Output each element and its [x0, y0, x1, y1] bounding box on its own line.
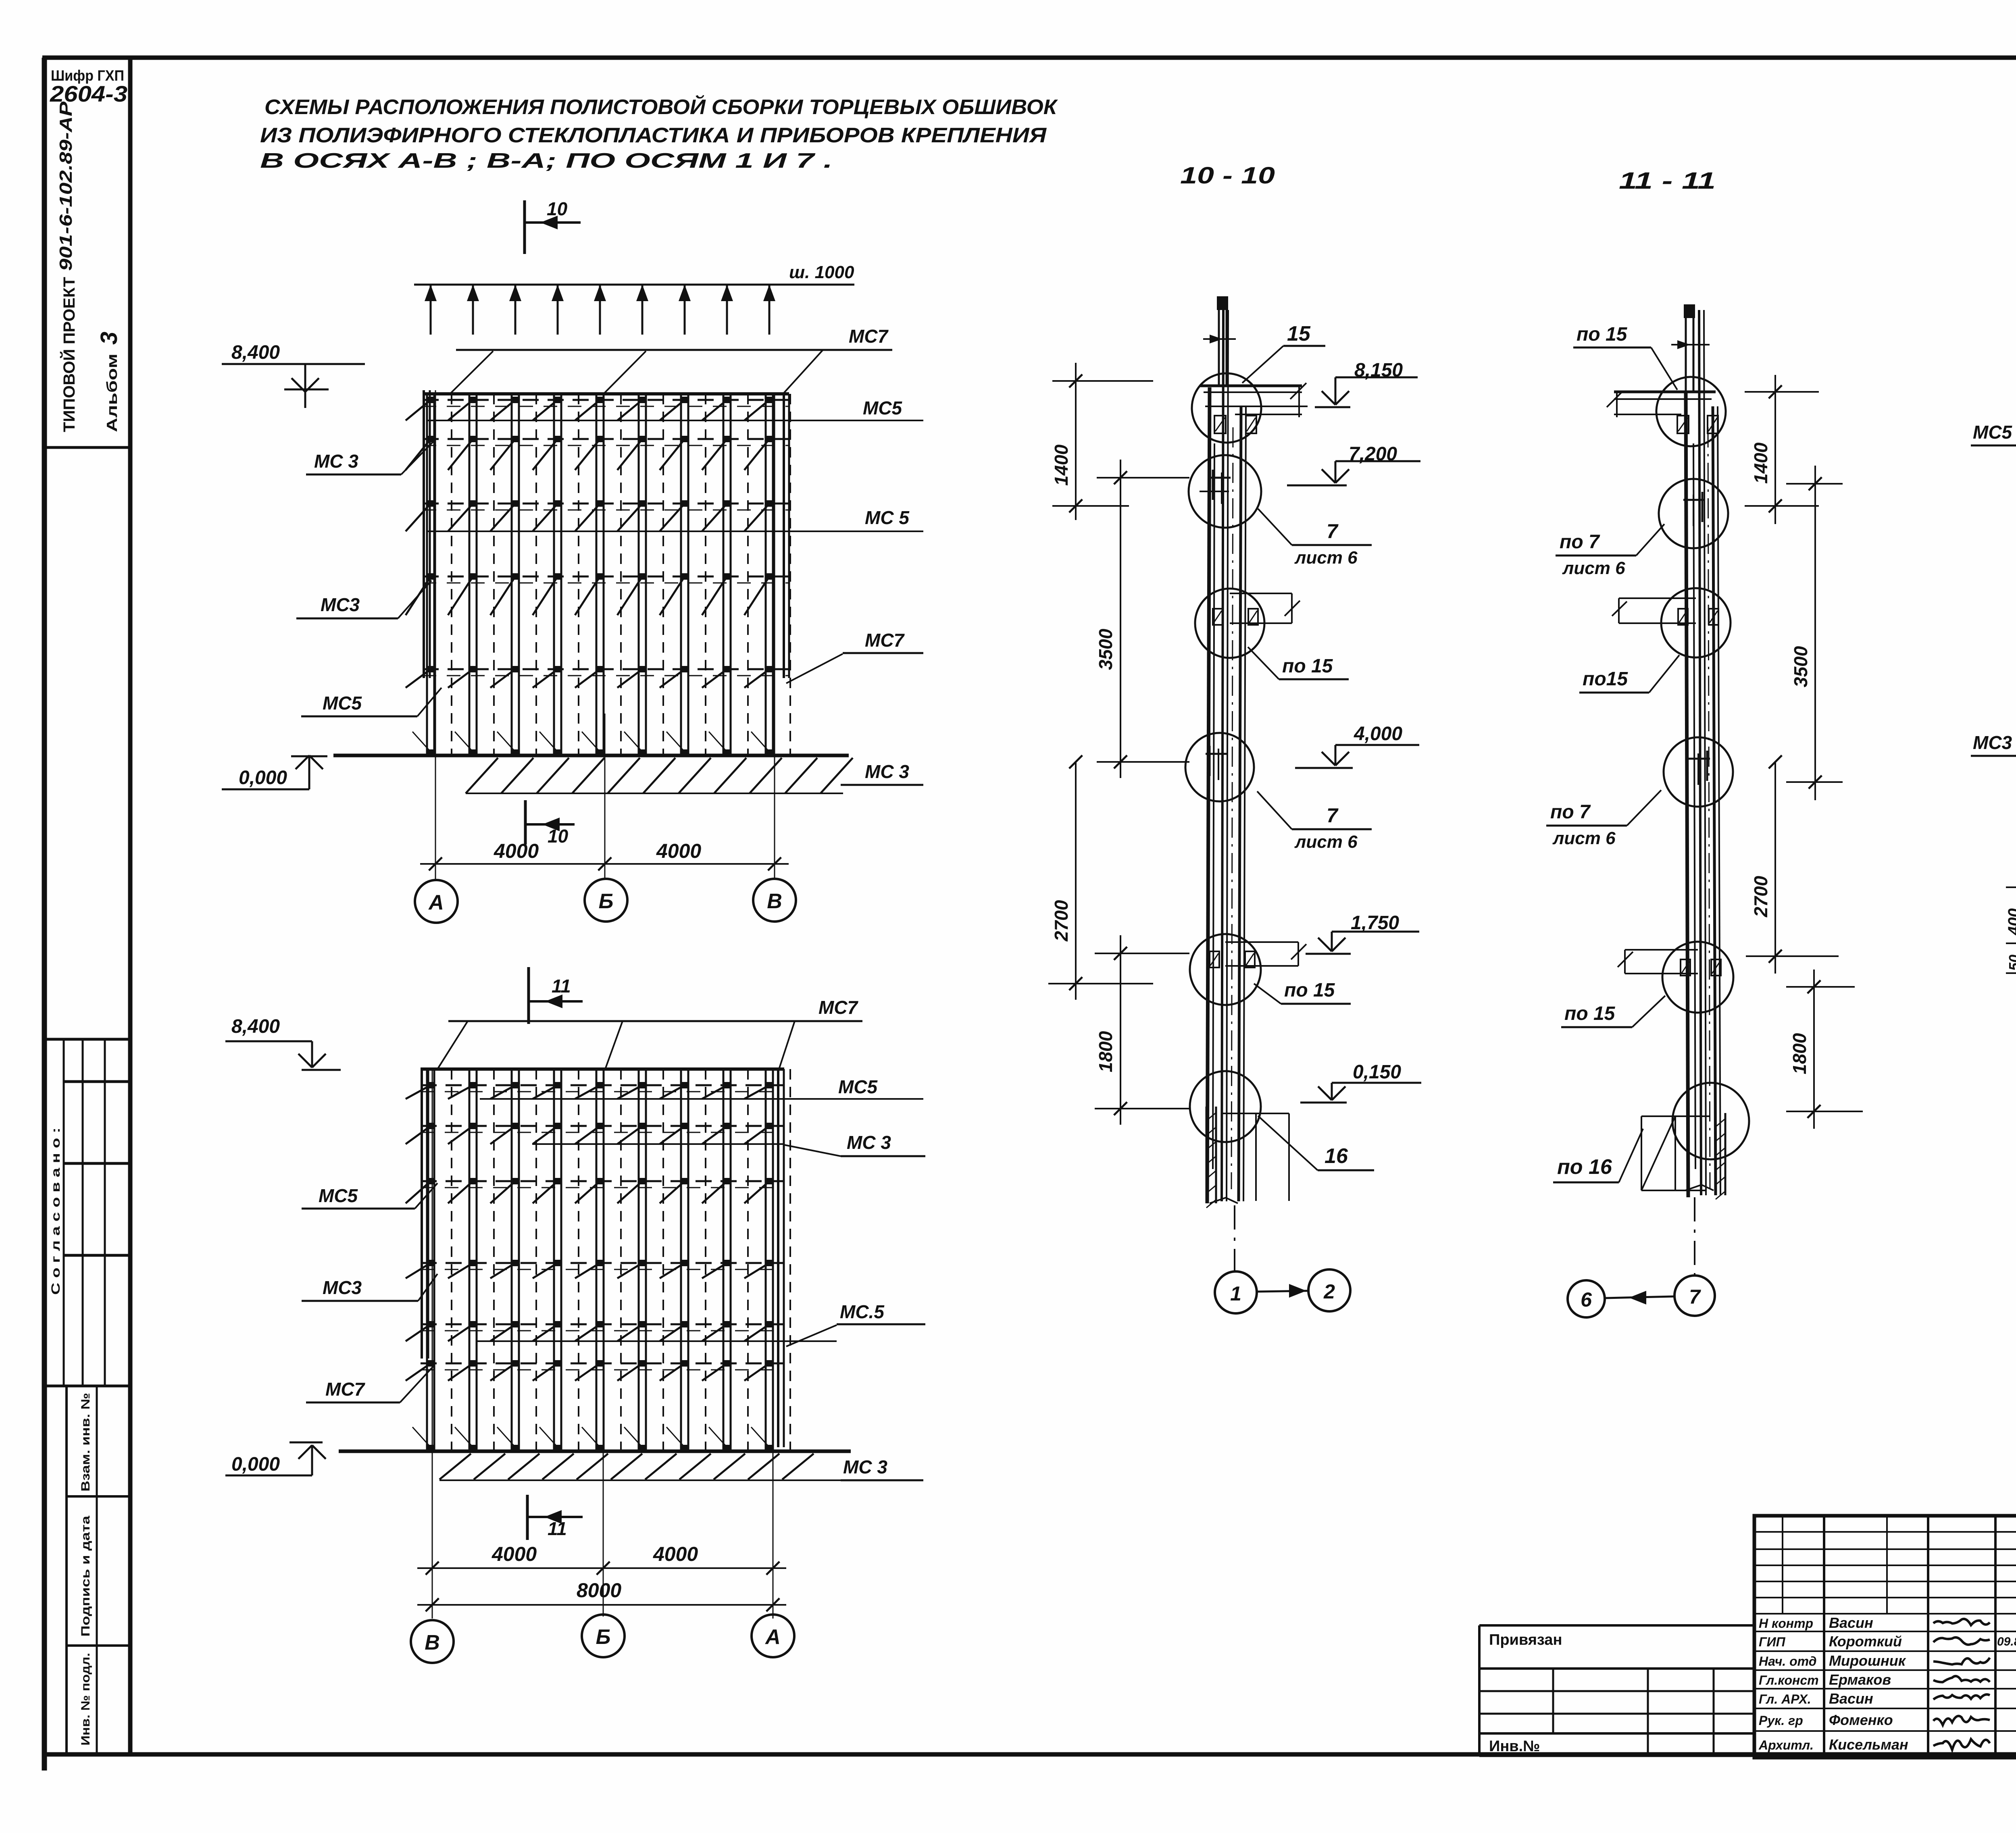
foundation 10-10: [1206, 1107, 1289, 1208]
border frame top: [42, 56, 2016, 60]
strip rotated Albom 3: [96, 332, 122, 432]
svg-text:3500: 3500: [1095, 628, 1116, 670]
label MC5 left bottom: [323, 693, 362, 714]
stamp box vzam inv: [67, 1386, 130, 1754]
arrow between 6 and 7: [1606, 1291, 1674, 1305]
detail16 left dim 400 50: [2005, 818, 2016, 978]
axis circle B upper: [585, 879, 627, 922]
border frame left: [42, 58, 47, 1771]
axis circle A upper: [415, 880, 458, 923]
axis circle V upper: [753, 879, 796, 922]
stamp date 09.89: [1997, 1635, 2016, 1648]
MC5 left leader bottom: [301, 688, 442, 716]
strip label Shifr GHP: [51, 67, 124, 84]
svg-text:3: 3: [96, 332, 122, 345]
detail label 15: [1242, 322, 1325, 383]
upper row MC7 level5: [406, 653, 923, 688]
svg-text:ИЗ ПОЛИЭФИРНОГО СТЕКЛОПЛАСТИ: ИЗ ПОЛИЭФИРНОГО СТЕКЛОПЛАСТИКА И ПРИБОРО…: [260, 124, 1047, 147]
label MC3 lower ground right: [841, 1456, 923, 1480]
svg-text:МС3: МС3: [1973, 732, 2012, 753]
label inv no podl: [79, 1653, 92, 1746]
upper stud base marks: [412, 732, 772, 755]
bracket rect circle 3 s10: [1213, 593, 1300, 625]
elevation 0.000 lower: [225, 1442, 326, 1475]
svg-text:лист 6: лист 6: [1294, 832, 1358, 852]
svg-text:Гл.конст: Гл.конст: [1759, 1673, 1819, 1687]
roof slab 10-10: [1200, 383, 1306, 417]
svg-text:1800: 1800: [1095, 1031, 1116, 1072]
lower dim line 8000: [417, 1579, 786, 1611]
label po 7 list 6 s11 first: [1556, 524, 1664, 578]
MC7 top leader line: [450, 350, 892, 394]
svg-text:2: 2: [1323, 1280, 1335, 1303]
svg-text:Васин: Васин: [1829, 1615, 1873, 1631]
axis circle 1 s10: [1215, 1271, 1257, 1313]
detail circle 5 s10: [1190, 934, 1261, 1005]
svg-text:лист 6: лист 6: [1294, 548, 1358, 568]
label podpis i data: [79, 1516, 92, 1637]
lower scheme ground line: [339, 1450, 851, 1453]
elevation 8.150: [1315, 360, 1418, 407]
lower scheme box top edge: [421, 1067, 784, 1071]
privyazan box: [1479, 1625, 1754, 1756]
dimension chains 10-10: [1048, 363, 1189, 1125]
lower stud base marks: [412, 1427, 772, 1450]
svg-text:Б: Б: [596, 1625, 611, 1649]
label MC3 left level4: [321, 594, 360, 615]
foundation 11-11: [1641, 1113, 1725, 1199]
svg-text:лист 6: лист 6: [1562, 558, 1625, 578]
fixture marks circle 2 s11: [1683, 492, 1705, 526]
svg-text:10: 10: [547, 198, 568, 219]
svg-text:МС5: МС5: [838, 1076, 878, 1097]
label MC5 lower right level1: [838, 1076, 878, 1097]
lower dim line 4000 4000: [417, 1543, 786, 1575]
lower row MC5 level1: [406, 1082, 923, 1099]
detail circle 3 s10: [1195, 589, 1264, 658]
lower scheme heavy side edges: [422, 1069, 784, 1447]
stamp verticals left part: [1824, 1516, 2016, 1758]
svg-text:лист 6: лист 6: [1552, 828, 1616, 848]
hatched blocks circle1 s10: [1214, 416, 1256, 433]
svg-text:Инв. № подл.: Инв. № подл.: [79, 1653, 92, 1746]
lower scheme studs: [427, 1069, 790, 1451]
axis circle 2 s10: [1308, 1269, 1350, 1311]
label po 15 s11 mid: [1579, 655, 1679, 693]
fixture marks circle 4 s11: [1688, 751, 1710, 785]
label MC3 detail16: [1971, 732, 2016, 818]
bracket rect circle 5 s10: [1210, 942, 1306, 967]
upper row MC5 level1: [406, 397, 923, 420]
label po 15 s11 lower: [1561, 996, 1665, 1027]
svg-text:МС7: МС7: [865, 630, 905, 651]
elevation 8.400 lower: [225, 1016, 341, 1070]
elevation 7.200: [1287, 443, 1420, 485]
svg-text:3500: 3500: [1790, 646, 1811, 687]
roof tick row sh.1000: [414, 285, 854, 335]
svg-text:10: 10: [548, 826, 569, 847]
svg-text:Взам. инв. №: Взам. инв. №: [79, 1393, 92, 1492]
upper row MC3 level2: [306, 436, 789, 474]
detail circle 1 s10: [1192, 373, 1261, 443]
upper scheme ground hatch: [466, 758, 853, 793]
label MC3 left level2: [314, 451, 358, 472]
label MC3 lower right level2: [784, 1132, 925, 1156]
mast 10-10 top pin: [1217, 296, 1228, 386]
label MC5 detail15: [1971, 398, 2016, 445]
section title 11-11: [1619, 168, 1716, 194]
elevation 8.400 upper: [222, 342, 365, 408]
lower row MC7 level6: [306, 1360, 784, 1402]
lower scheme ground hatch: [439, 1454, 853, 1480]
label inv no stamp: [1489, 1738, 1540, 1755]
section mark 10 bottom: [525, 800, 575, 847]
lower row MC3 level2: [406, 1123, 784, 1144]
sheet title line 2: [260, 124, 1047, 147]
svg-text:09.89: 09.89: [1997, 1635, 2016, 1648]
detail circle 3 s11: [1661, 588, 1731, 657]
strip rotated text TIPOVOY PROEKT: [60, 277, 78, 432]
elevation 4.000: [1295, 723, 1419, 768]
label privyazan: [1489, 1631, 1562, 1648]
mast 10-10 pin tick: [1203, 335, 1236, 343]
lower row MC5 level3: [302, 1178, 784, 1209]
detail circle 4 s11: [1664, 737, 1733, 807]
upper scheme studs: [427, 394, 790, 756]
svg-text:А: А: [764, 1625, 781, 1649]
svg-text:Б: Б: [599, 890, 614, 913]
mast 11-11 pin tick: [1671, 340, 1710, 349]
mast 10-10 body: [1207, 310, 1246, 1203]
svg-text:8,400: 8,400: [231, 1016, 280, 1037]
upper row MC5 level3: [406, 500, 923, 531]
section title 10-10: [1180, 162, 1275, 189]
detail circle 4 s10: [1185, 733, 1254, 801]
upper scheme box top edge: [423, 392, 789, 395]
svg-text:В: В: [767, 890, 782, 913]
bracket rect circle 5 s11: [1618, 950, 1721, 976]
svg-text:1,750: 1,750: [1351, 912, 1399, 934]
label MC7 right level5: [865, 630, 905, 651]
svg-text:1800: 1800: [1789, 1033, 1810, 1074]
elevation 0.150: [1300, 1061, 1421, 1103]
label MC3 ground right: [841, 761, 923, 785]
stamp signature rows: [1754, 1631, 2016, 1731]
svg-text:А: А: [428, 891, 444, 914]
label po 7 list 6 s11 second: [1546, 790, 1661, 848]
svg-text:по 16: по 16: [1557, 1155, 1612, 1179]
upper dim line 4000 4000: [420, 840, 789, 870]
svg-text:10 - 10: 10 - 10: [1180, 162, 1275, 189]
svg-text:8000: 8000: [577, 1579, 621, 1602]
svg-text:15: 15: [1287, 322, 1311, 345]
mast 11-11 body: [1686, 310, 1720, 1197]
svg-text:ш. 1000: ш. 1000: [789, 262, 854, 282]
svg-text:4000: 4000: [492, 1543, 537, 1565]
svg-text:МС 5: МС 5: [865, 507, 910, 528]
svg-text:4000: 4000: [653, 1543, 698, 1565]
sheet title line 3: [260, 149, 833, 173]
sheet title line 1: [264, 95, 1058, 119]
arrow between 1 and 2: [1257, 1284, 1308, 1298]
label sh 1000: [789, 262, 854, 282]
svg-text:0,000: 0,000: [231, 1454, 280, 1475]
svg-text:11: 11: [548, 1518, 567, 1539]
svg-text:СХЕМЫ РАСПОЛОЖЕНИЯ ПОЛИСТОВО: СХЕМЫ РАСПОЛОЖЕНИЯ ПОЛИСТОВОЙ СБОРКИ ТОР…: [264, 95, 1058, 119]
strip rotated handwritten 901-6-102.89-AP: [56, 101, 76, 271]
elevation 0.000 upper: [222, 755, 327, 789]
svg-text:по 7: по 7: [1550, 801, 1591, 823]
lower row MC3 level4: [302, 1260, 784, 1301]
detail circle 2 s11: [1659, 479, 1728, 548]
svg-text:4,000: 4,000: [1354, 723, 1402, 745]
svg-text:В: В: [425, 1631, 440, 1654]
axis tail 10-10: [1234, 1205, 1235, 1271]
border frame bottom: [44, 1752, 2016, 1757]
svg-text:МС 3: МС 3: [865, 761, 909, 782]
label vzam inv no: [79, 1393, 92, 1492]
svg-text:2700: 2700: [1051, 900, 1072, 942]
label MC5 lower left level3: [319, 1185, 358, 1206]
lower axis lines: [432, 1069, 773, 1619]
stamp outer box: [1754, 1516, 2016, 1758]
soglasovano table: [44, 1039, 130, 1386]
svg-text:7: 7: [1327, 520, 1339, 543]
label MC.5 lower right level5: [840, 1301, 885, 1322]
stamp signature names: [1758, 1615, 1990, 1753]
svg-text:по 15: по 15: [1564, 1003, 1616, 1024]
svg-text:МС3: МС3: [323, 1277, 362, 1298]
svg-text:МС7: МС7: [818, 997, 859, 1018]
label MC5 right level1: [863, 397, 903, 418]
upper scheme heavy side edges: [424, 390, 789, 678]
svg-text:50: 50: [2006, 955, 2016, 971]
svg-text:Альбом: Альбом: [104, 354, 120, 432]
roof slab 11-11: [1607, 391, 1716, 417]
fixture marks circle 4 s10: [1206, 746, 1227, 780]
svg-text:Ермаков: Ермаков: [1829, 1671, 1891, 1688]
svg-text:МС5: МС5: [319, 1185, 358, 1206]
axis circle B lower: [582, 1615, 625, 1657]
label MC3 lower left level4: [323, 1277, 362, 1298]
level line 8150: [1205, 406, 1308, 407]
upper scheme ground line: [333, 754, 849, 757]
svg-text:ГИП: ГИП: [1759, 1635, 1786, 1649]
svg-text:8,400: 8,400: [231, 342, 280, 363]
label po 15 s10 lower: [1254, 980, 1351, 1004]
svg-text:7: 7: [1689, 1286, 1701, 1308]
elevation 1.750: [1306, 912, 1419, 954]
bracket rect circle 3 s11: [1612, 598, 1718, 625]
detail circle 2 s10: [1189, 455, 1261, 528]
axis circle 7 s11: [1674, 1275, 1715, 1316]
svg-text:16: 16: [1325, 1144, 1348, 1168]
svg-text:В ОСЯХ А-В ; В-А; ПО ОСЯМ: В ОСЯХ А-В ; В-А; ПО ОСЯМ 1 И 7 .: [260, 149, 833, 173]
svg-text:1400: 1400: [1051, 444, 1072, 486]
dim chains 11-11 right: [1745, 375, 1863, 1129]
svg-text:Фоменко: Фоменко: [1829, 1712, 1893, 1728]
svg-text:Кисельман: Кисельман: [1829, 1736, 1908, 1753]
label po 15 s10: [1248, 647, 1349, 679]
svg-text:МС5: МС5: [323, 693, 362, 714]
svg-text:Привязан: Привязан: [1489, 1631, 1562, 1648]
svg-text:11 - 11: 11 - 11: [1619, 168, 1716, 194]
detail circle 5 s11: [1662, 942, 1733, 1013]
svg-text:Инв.№: Инв.№: [1489, 1738, 1540, 1755]
svg-text:11: 11: [552, 976, 571, 997]
svg-text:МС.5: МС.5: [840, 1301, 885, 1322]
axis tail 11-11: [1694, 1197, 1695, 1275]
svg-text:Архитл.: Архитл.: [1758, 1738, 1814, 1752]
label po 15 s11 top: [1573, 324, 1677, 390]
axis circle V lower: [411, 1620, 454, 1663]
axis circle 6 s11: [1568, 1280, 1605, 1317]
svg-text:по 15: по 15: [1282, 655, 1333, 677]
svg-text:Гл. АРХ.: Гл. АРХ.: [1759, 1692, 1811, 1706]
svg-text:МС5: МС5: [1973, 422, 2013, 443]
lower row MC5 level5: [406, 1321, 925, 1346]
svg-text:6: 6: [1581, 1288, 1592, 1311]
MC7 leader line lower scheme: [437, 1021, 862, 1069]
svg-text:0,000: 0,000: [239, 767, 287, 789]
svg-text:МС7: МС7: [849, 326, 889, 347]
svg-text:по15: по15: [1583, 668, 1628, 690]
svg-text:ТИПОВОЙ ПРОЕКТ: ТИПОВОЙ ПРОЕКТ: [60, 277, 78, 432]
svg-text:Н контр: Н контр: [1759, 1616, 1813, 1631]
svg-text:С о г л а с о в а н о :: С о г л а с о в а н о :: [49, 1128, 62, 1295]
label MC7 lower right top: [818, 997, 859, 1018]
svg-text:по 15: по 15: [1577, 324, 1628, 345]
detail circle 6 s11: [1672, 1083, 1749, 1159]
svg-text:4000: 4000: [494, 840, 539, 862]
detail circle 6 s10: [1190, 1071, 1261, 1142]
svg-text:Рук. гр: Рук. гр: [1759, 1713, 1803, 1728]
svg-text:МС 3: МС 3: [843, 1456, 887, 1477]
label 7 list 6 first: [1258, 509, 1372, 568]
soglasovano rotated label: [49, 1128, 62, 1295]
svg-text:4000: 4000: [656, 840, 701, 862]
section mark 10 top: [525, 198, 581, 254]
svg-text:МС7: МС7: [325, 1379, 366, 1400]
svg-text:Васин: Васин: [1829, 1690, 1873, 1707]
svg-text:Короткий: Короткий: [1829, 1633, 1902, 1650]
svg-text:МС5: МС5: [863, 397, 903, 418]
fixture marks circle 2 s10: [1200, 470, 1231, 504]
label MC5 right level3: [865, 507, 910, 528]
svg-text:Нач. отд: Нач. отд: [1759, 1654, 1816, 1669]
strip divider under project box: [44, 446, 130, 449]
section mark 11 top: [529, 967, 583, 1024]
label po 16 leader: [1553, 1129, 1643, 1182]
svg-text:0,150: 0,150: [1353, 1061, 1401, 1083]
svg-text:7: 7: [1327, 804, 1339, 827]
label 16 leader: [1258, 1116, 1374, 1170]
label MC7 lower left: [325, 1379, 366, 1400]
detail circle 1 s11: [1656, 377, 1726, 446]
svg-text:МС 3: МС 3: [314, 451, 358, 472]
section mark 11 bottom: [527, 1495, 583, 1540]
mast 11-11 top pin: [1684, 304, 1695, 392]
label 7 list 6 second: [1257, 791, 1372, 852]
svg-text:901-6-102.89-АР: 901-6-102.89-АР: [56, 101, 76, 271]
svg-text:1: 1: [1230, 1282, 1241, 1305]
svg-text:Подпись и дата: Подпись и дата: [79, 1516, 92, 1637]
svg-text:Мирошник: Мирошник: [1829, 1652, 1906, 1669]
left strip inner border: [128, 58, 133, 1754]
label MC7 upper right: [849, 326, 889, 347]
svg-text:400: 400: [2005, 908, 2016, 936]
svg-text:по 7: по 7: [1560, 531, 1600, 553]
upper row MC3 level4: [296, 573, 789, 618]
svg-text:МС3: МС3: [321, 594, 360, 615]
stamp thin revision rows: [1754, 1516, 2016, 1614]
svg-text:МС 3: МС 3: [847, 1132, 891, 1153]
strip code 2604-3: [50, 81, 127, 106]
upper axis lines: [435, 390, 775, 880]
hatched blocks circle1 s11: [1677, 416, 1718, 433]
svg-text:1400: 1400: [1750, 442, 1771, 484]
axis circle A lower: [752, 1615, 794, 1657]
svg-text:2700: 2700: [1750, 876, 1771, 918]
svg-text:по 15: по 15: [1284, 980, 1335, 1001]
